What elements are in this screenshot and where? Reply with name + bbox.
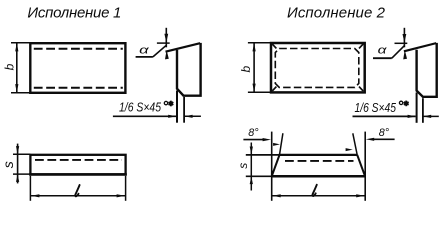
svg-text:1/6 S×45: 1/6 S×45 [119,101,161,115]
svg-text:Исполнение 2: Исполнение 2 [287,5,386,22]
svg-text:8°: 8° [248,127,259,139]
svg-text:s: s [0,161,16,168]
svg-text:b: b [3,63,17,70]
svg-text:1/6 S×45: 1/6 S×45 [355,101,397,115]
svg-text:8°: 8° [379,127,390,139]
svg-text:b: b [239,66,253,73]
svg-text:Исполнение 1: Исполнение 1 [27,5,121,22]
svg-text:α: α [139,44,150,56]
svg-text:α: α [378,45,388,57]
svg-text:s: s [236,163,250,169]
